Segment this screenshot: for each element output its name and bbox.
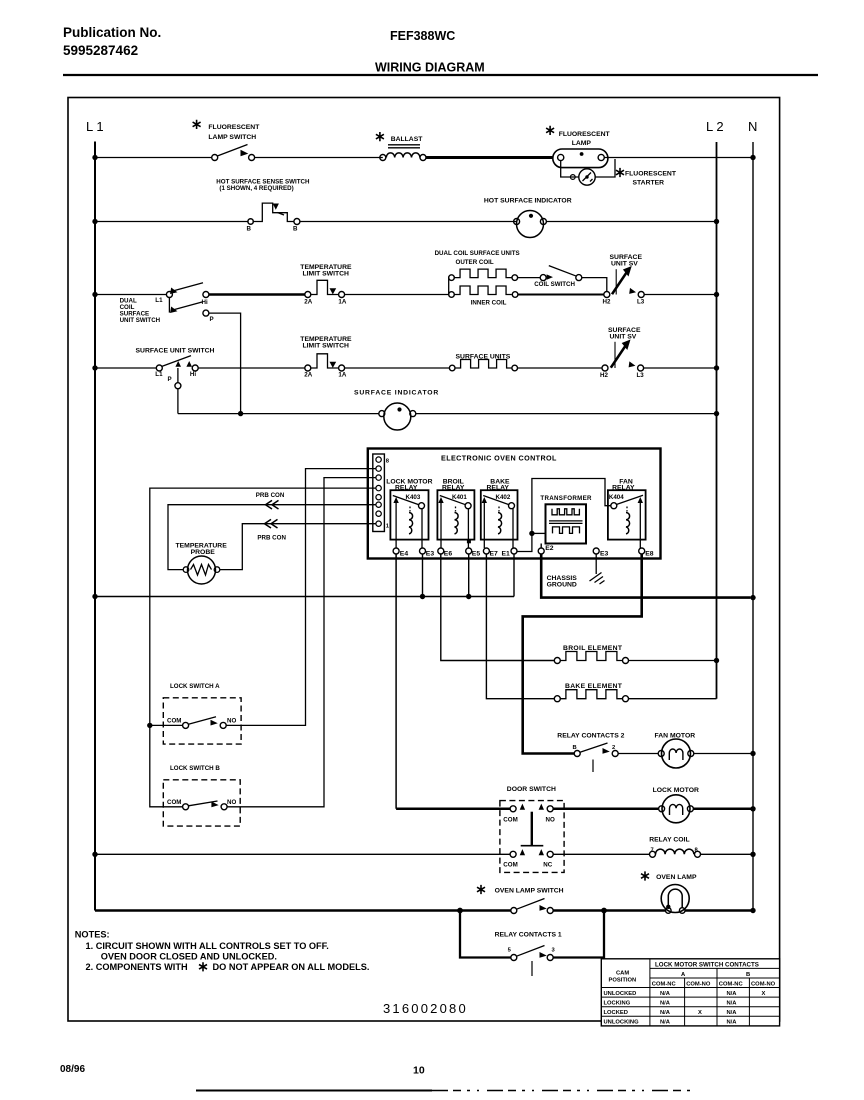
svg-text:E8: E8 [645,551,654,558]
svg-text:RELAY CONTACTS 1: RELAY CONTACTS 1 [495,932,562,939]
svg-text:NO: NO [546,816,555,823]
svg-text:1A: 1A [338,298,346,305]
svg-text:GROUND: GROUND [547,581,577,588]
svg-text:BROIL ELEMENT: BROIL ELEMENT [563,645,623,652]
svg-text:BALLAST: BALLAST [391,136,424,143]
svg-text:P: P [168,376,172,383]
svg-text:DO NOT APPEAR ON ALL MODELS.: DO NOT APPEAR ON ALL MODELS. [213,962,370,972]
svg-text:K404: K404 [609,494,624,501]
svg-text:P: P [210,316,214,323]
svg-text:LIMIT SWITCH: LIMIT SWITCH [303,343,350,350]
svg-text:HOT SURFACE INDICATOR: HOT SURFACE INDICATOR [484,197,572,204]
svg-text:COM: COM [167,717,181,724]
svg-text:COIL SWITCH: COIL SWITCH [534,281,575,288]
svg-text:COM-NO: COM-NO [751,981,776,987]
svg-text:316002080: 316002080 [383,1001,468,1016]
svg-text:08/96: 08/96 [60,1064,85,1075]
svg-text:PRB CON: PRB CON [257,535,286,542]
svg-text:DUAL COIL SURFACE UNITS: DUAL COIL SURFACE UNITS [435,250,520,257]
svg-text:E4: E4 [400,551,409,558]
svg-text:X: X [698,1010,702,1016]
svg-text:B: B [293,226,298,233]
svg-text:OVEN DOOR CLOSED AND UNLOCKED.: OVEN DOOR CLOSED AND UNLOCKED. [101,952,277,962]
svg-text:2A: 2A [304,298,312,305]
svg-text:K401: K401 [452,494,467,501]
svg-text:7: 7 [651,847,654,853]
svg-text:L 1: L 1 [86,119,104,134]
svg-text:PROBE: PROBE [191,549,216,556]
svg-text:E3: E3 [600,551,609,558]
svg-text:X: X [762,991,766,997]
svg-text:H2: H2 [600,372,608,379]
svg-text:DOOR SWITCH: DOOR SWITCH [507,786,556,793]
svg-text:LOCK SWITCH A: LOCK SWITCH A [170,683,220,690]
svg-text:2. COMPONENTS WITH: 2. COMPONENTS WITH [86,962,188,972]
svg-text:FLUORESCENT: FLUORESCENT [208,124,260,131]
svg-text:2A: 2A [304,371,312,378]
svg-text:LOCKED: LOCKED [604,1010,628,1016]
svg-text:E1: E1 [502,550,511,557]
svg-text:TRANSFORMER: TRANSFORMER [540,495,592,502]
svg-text:POSITION: POSITION [609,978,637,984]
svg-text:SURFACE UNITS: SURFACE UNITS [456,353,511,360]
svg-text:Publication No.: Publication No. [63,25,161,40]
svg-text:N/A: N/A [660,1020,671,1026]
svg-text:LAMP SWITCH: LAMP SWITCH [208,134,256,141]
svg-text:FLUORESCENT: FLUORESCENT [625,170,677,177]
svg-text:BAKE ELEMENT: BAKE ELEMENT [565,683,623,690]
svg-text:(1 SHOWN, 4 REQUIRED): (1 SHOWN, 4 REQUIRED) [219,185,293,192]
svg-text:RELAY CONTACTS 2: RELAY CONTACTS 2 [557,732,624,739]
svg-text:STARTER: STARTER [633,179,665,186]
svg-text:UNLOCKED: UNLOCKED [604,991,637,997]
svg-text:SURFACE UNIT SWITCH: SURFACE UNIT SWITCH [136,347,215,354]
svg-text:INNER COIL: INNER COIL [471,299,507,306]
svg-text:H2: H2 [603,299,611,306]
svg-text:CAM: CAM [616,971,629,977]
svg-text:COM-NO: COM-NO [686,981,711,987]
svg-text:COM: COM [167,799,181,806]
svg-text:SURFACE INDICATOR: SURFACE INDICATOR [354,390,439,397]
svg-text:N/A: N/A [660,991,671,997]
svg-text:OVEN LAMP SWITCH: OVEN LAMP SWITCH [495,887,564,894]
svg-text:N/A: N/A [727,1010,738,1016]
svg-text:COM: COM [503,816,517,823]
svg-text:2: 2 [612,745,615,751]
svg-text:N/A: N/A [727,991,738,997]
svg-text:1. CIRCUIT SHOWN WITH ALL CONT: 1. CIRCUIT SHOWN WITH ALL CONTROLS SET T… [86,941,329,951]
svg-text:K403: K403 [406,494,421,501]
svg-text:COM-NC: COM-NC [719,981,744,987]
svg-text:NOTES:: NOTES: [75,930,110,940]
svg-text:NO: NO [227,799,236,806]
svg-text:FEF388WC: FEF388WC [390,29,455,43]
svg-text:N: N [748,119,757,134]
svg-text:5995287462: 5995287462 [63,43,138,58]
svg-text:E7: E7 [490,550,499,557]
svg-text:OUTER COIL: OUTER COIL [456,259,494,266]
svg-text:LOCK SWITCH B: LOCK SWITCH B [170,765,220,772]
svg-text:1A: 1A [338,371,346,378]
svg-text:L 2: L 2 [706,119,724,134]
svg-text:LOCKING: LOCKING [604,1000,631,1006]
svg-text:Hi: Hi [190,371,196,378]
svg-text:OVEN LAMP: OVEN LAMP [656,874,697,881]
svg-text:N/A: N/A [660,1000,671,1006]
svg-text:L3: L3 [637,372,645,379]
svg-text:PRB CON: PRB CON [256,492,285,499]
svg-text:FAN MOTOR: FAN MOTOR [655,732,696,739]
svg-text:COM: COM [503,861,517,868]
svg-text:LOCK MOTOR: LOCK MOTOR [653,787,699,794]
svg-text:L1: L1 [155,297,163,304]
svg-text:B: B [746,972,750,978]
svg-text:COM-NC: COM-NC [652,981,677,987]
svg-text:NC: NC [543,861,552,868]
svg-text:UNIT SV: UNIT SV [611,260,638,267]
svg-text:Hi: Hi [202,299,208,306]
svg-text:LOCK MOTOR SWITCH CONTACTS: LOCK MOTOR SWITCH CONTACTS [655,961,759,968]
svg-text:E3: E3 [426,551,435,558]
svg-text:E2: E2 [545,545,554,552]
svg-text:LIMIT SWITCH: LIMIT SWITCH [303,270,350,277]
svg-text:N/A: N/A [727,1020,738,1026]
svg-text:WIRING DIAGRAM: WIRING DIAGRAM [375,61,485,75]
svg-text:FLUORESCENT: FLUORESCENT [559,131,611,138]
svg-text:E5: E5 [472,551,481,558]
svg-text:UNIT SWITCH: UNIT SWITCH [120,317,161,324]
svg-text:B: B [247,226,252,233]
svg-text:L1: L1 [155,371,163,378]
svg-text:LAMP: LAMP [572,140,592,147]
svg-text:N/A: N/A [660,1010,671,1016]
svg-text:B: B [573,745,577,751]
svg-text:E6: E6 [444,551,453,558]
svg-text:L3: L3 [637,299,645,306]
svg-text:ELECTRONIC OVEN CONTROL: ELECTRONIC OVEN CONTROL [441,453,557,462]
svg-text:NO: NO [227,717,236,724]
svg-text:N/A: N/A [727,1000,738,1006]
svg-text:RELAY COIL: RELAY COIL [649,836,689,843]
svg-text:K402: K402 [496,494,511,501]
svg-text:UNIT SV: UNIT SV [610,333,637,340]
svg-text:UNLOCKING: UNLOCKING [604,1020,640,1026]
svg-text:10: 10 [413,1065,425,1077]
